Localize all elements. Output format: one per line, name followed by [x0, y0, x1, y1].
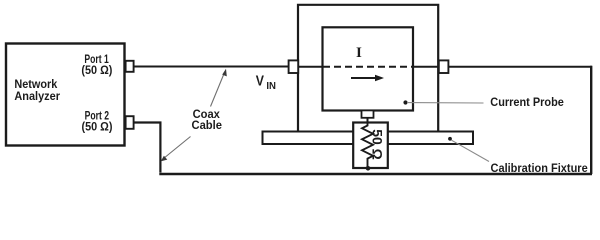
svg-text:V: V — [256, 72, 264, 89]
connector J2 Port 2 — [126, 116, 134, 129]
connector J1 Port 1 — [126, 61, 134, 72]
wire through probe (right stub) — [413, 66, 449, 68]
stub wire to resistor — [367, 118, 369, 123]
wire bottom return — [159, 173, 592, 175]
svg-text:50 Ω: 50 Ω — [370, 129, 386, 160]
pointer line to Calibration Fixture label — [452, 140, 490, 161]
calibration fixture bar — [263, 132, 474, 145]
svg-text:(50 Ω): (50 Ω) — [81, 65, 112, 77]
label Network Analyzer — [14, 77, 60, 103]
current probe outer box — [298, 5, 438, 132]
pointer line to Current Probe label — [407, 102, 484, 104]
pointer arrow coax to bottom wire — [161, 137, 191, 162]
svg-text:I: I — [356, 45, 362, 61]
svg-text:Cable: Cable — [192, 120, 223, 132]
svg-text:Coax: Coax — [193, 109, 221, 121]
resistor box — [353, 123, 388, 169]
dot on current probe — [403, 100, 407, 104]
label V_IN — [256, 72, 276, 92]
wire right riser — [590, 66, 592, 174]
svg-text:Current Probe: Current Probe — [490, 97, 564, 109]
current probe inner box — [323, 27, 414, 110]
wire Port 2 coax down — [134, 123, 161, 173]
label I (current) — [356, 45, 362, 61]
label Port 2 (50 Ohm) — [82, 111, 113, 134]
value label 50 Ohm — [370, 129, 386, 160]
dashed current path — [323, 66, 413, 68]
svg-text:Calibration Fixture: Calibration Fixture — [491, 161, 588, 175]
svg-text:(50 Ω): (50 Ω) — [82, 122, 113, 134]
label Calibration Fixture — [491, 161, 588, 175]
wire through probe (left stub) — [288, 66, 322, 68]
wire probe to riser — [448, 66, 592, 68]
label Current Probe — [490, 97, 564, 109]
connector at inner box bottom — [362, 110, 374, 117]
pointer arrow coax to top wire — [211, 69, 227, 107]
wire Port 1 to probe — [134, 66, 289, 68]
connector on outer box left — [289, 60, 299, 73]
junction dot at resistor bottom — [366, 166, 371, 171]
label Port 1 (50 Ohm) — [81, 54, 112, 77]
connector on outer box right — [439, 60, 449, 73]
dot on fixture bar — [448, 137, 452, 141]
resistor R zigzag — [362, 123, 373, 168]
svg-text:Analyzer: Analyzer — [14, 89, 60, 103]
network analyzer box — [6, 44, 125, 146]
svg-text:IN: IN — [266, 80, 276, 92]
current direction arrow — [351, 75, 384, 82]
label Coax Cable — [192, 109, 223, 132]
